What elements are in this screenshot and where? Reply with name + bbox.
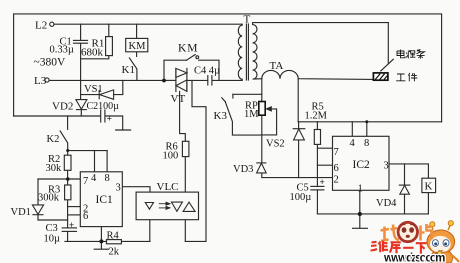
svg-text:VD1: VD1 bbox=[11, 207, 31, 218]
svg-text:KM: KM bbox=[178, 42, 199, 54]
svg-text:3: 3 bbox=[384, 160, 389, 171]
svg-text:1M: 1M bbox=[244, 109, 259, 120]
svg-text:680k: 680k bbox=[81, 46, 104, 58]
svg-text:VLC: VLC bbox=[157, 181, 179, 193]
svg-text:6: 6 bbox=[83, 211, 88, 222]
svg-text:K3: K3 bbox=[214, 110, 228, 122]
svg-text:VD4: VD4 bbox=[376, 198, 397, 209]
svg-text:+: + bbox=[107, 114, 112, 124]
svg-text:8: 8 bbox=[364, 138, 369, 149]
svg-text:0.33µ: 0.33µ bbox=[50, 44, 74, 55]
svg-text:30k: 30k bbox=[46, 163, 63, 174]
svg-text:6: 6 bbox=[334, 163, 339, 174]
svg-text:C2100µ: C2100µ bbox=[87, 101, 120, 112]
svg-text:8: 8 bbox=[105, 173, 110, 184]
svg-text:100µ: 100µ bbox=[290, 192, 312, 203]
svg-text:VS2: VS2 bbox=[266, 138, 285, 149]
svg-text:KM: KM bbox=[129, 41, 147, 52]
svg-text:1: 1 bbox=[358, 183, 363, 194]
svg-text:300k: 300k bbox=[38, 192, 60, 203]
svg-text:4µ: 4µ bbox=[209, 65, 220, 76]
svg-text:1.2M: 1.2M bbox=[305, 110, 328, 121]
svg-text:3: 3 bbox=[116, 182, 121, 193]
svg-text:K: K bbox=[425, 180, 433, 192]
svg-text:K2: K2 bbox=[47, 134, 60, 145]
svg-text:IC2: IC2 bbox=[353, 159, 371, 171]
svg-text:K1: K1 bbox=[122, 64, 135, 76]
svg-text:4: 4 bbox=[91, 173, 97, 184]
svg-text:VD2: VD2 bbox=[52, 100, 73, 112]
svg-text:100: 100 bbox=[163, 150, 179, 161]
svg-text:TA: TA bbox=[270, 60, 284, 72]
svg-text:+: + bbox=[69, 220, 74, 230]
svg-text:L3: L3 bbox=[34, 75, 47, 87]
svg-text:+: + bbox=[320, 177, 325, 187]
svg-text:VT: VT bbox=[171, 93, 186, 105]
svg-text:4: 4 bbox=[350, 138, 356, 149]
svg-text:VS1: VS1 bbox=[84, 84, 103, 95]
svg-text:T: T bbox=[244, 13, 251, 25]
svg-text:L2: L2 bbox=[35, 20, 47, 32]
svg-text:IC1: IC1 bbox=[96, 194, 114, 206]
svg-text:10µ: 10µ bbox=[44, 233, 61, 244]
svg-text:7: 7 bbox=[83, 176, 88, 187]
svg-text:C3: C3 bbox=[46, 223, 58, 234]
svg-text:~380V: ~380V bbox=[34, 57, 66, 69]
svg-text:www.dzsc.com: www.dzsc.com bbox=[383, 252, 445, 263]
svg-text:2: 2 bbox=[334, 174, 339, 185]
svg-text:R4: R4 bbox=[107, 230, 120, 241]
svg-text:VD3: VD3 bbox=[233, 164, 253, 175]
svg-text:2k: 2k bbox=[109, 246, 120, 257]
svg-text:7: 7 bbox=[334, 147, 339, 158]
svg-text:C4: C4 bbox=[194, 65, 207, 76]
